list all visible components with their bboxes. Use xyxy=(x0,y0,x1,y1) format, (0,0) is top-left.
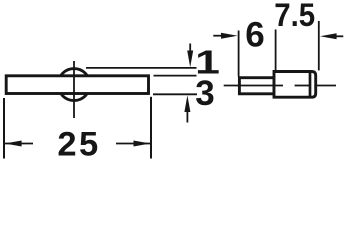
svg-text:6: 6 xyxy=(245,16,264,55)
svg-text:25: 25 xyxy=(57,125,100,159)
svg-text:3: 3 xyxy=(195,74,214,113)
svg-text:7.5: 7.5 xyxy=(274,0,315,33)
